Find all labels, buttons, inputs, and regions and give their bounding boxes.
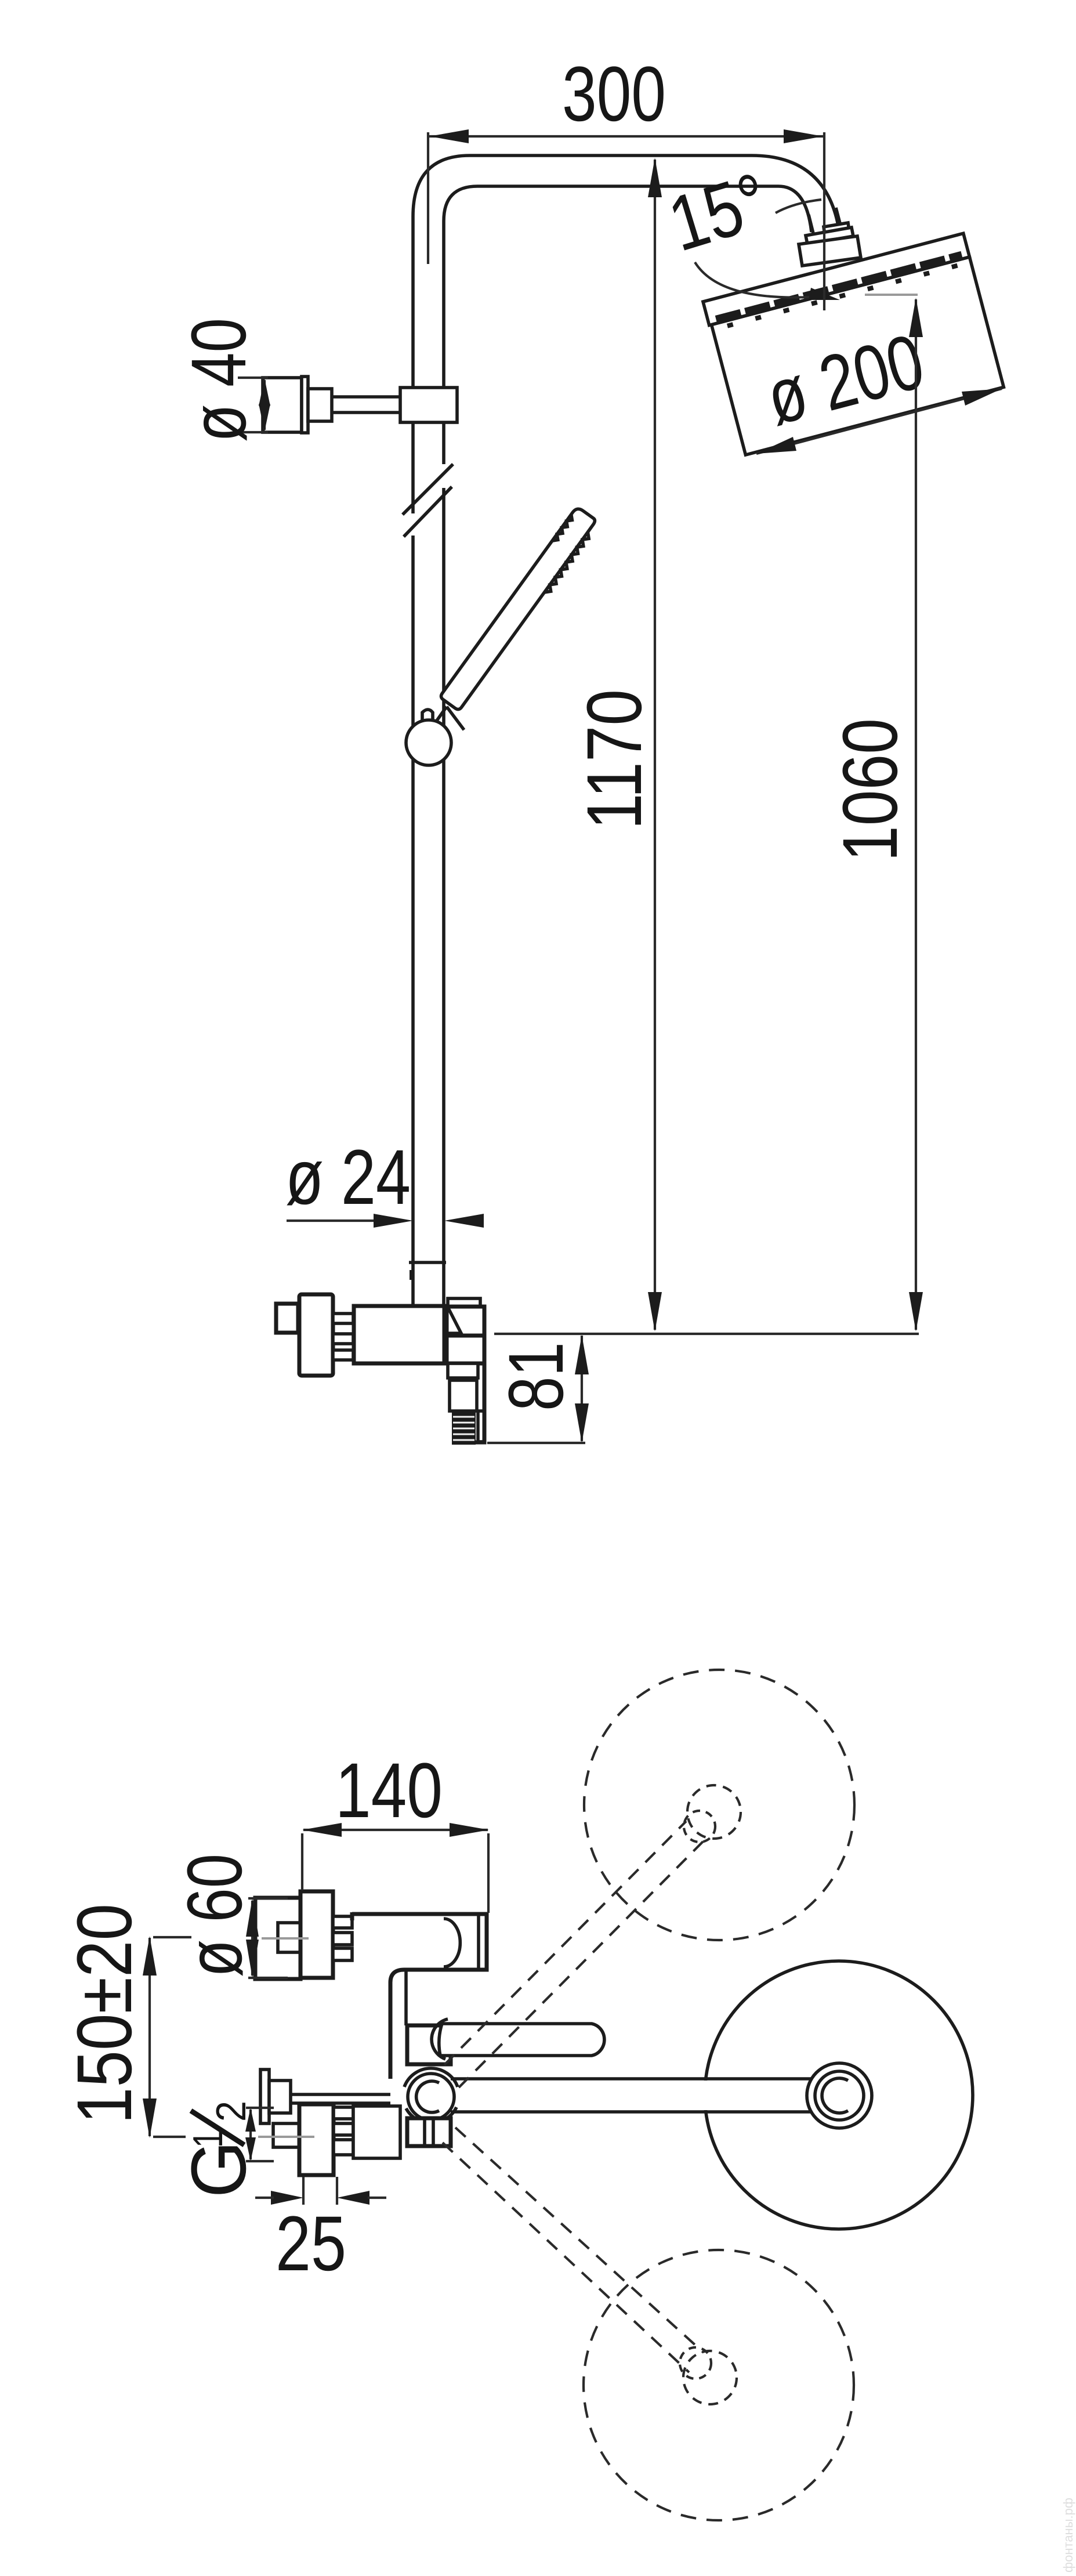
mixer valve right block lower: [447, 1336, 484, 1363]
dim G12 extensions: [246, 2108, 274, 2161]
dashed circle top (head position up): [584, 1670, 854, 1940]
wall flange hub mid: [815, 2071, 864, 2120]
joint inner C ring: [416, 2081, 439, 2112]
svg-text:15°: 15°: [660, 157, 778, 268]
shower riser pipe: right wall line: [442, 221, 445, 1306]
mixer valve rib 1: [333, 1314, 353, 1323]
mixer valve handle end square: [276, 1304, 298, 1333]
holder knob tab: [422, 710, 433, 722]
body bar socket arc: [444, 1919, 460, 1967]
head swivel collar large: [799, 236, 861, 266]
dim 25 extensions: [303, 2177, 337, 2205]
lever ball arc: [432, 2019, 448, 2059]
knob plan outer: [255, 1898, 300, 1979]
knob ribs: [333, 1916, 352, 1928]
label G12: [176, 2101, 262, 2198]
dashed swivel arm top: [444, 1821, 703, 2087]
G12 centerline: [174, 2136, 314, 2138]
hose outlet body: [450, 1380, 477, 1411]
svg-text:25: 25: [276, 2201, 346, 2287]
wall bracket arm lower line: [332, 411, 406, 414]
riser break mark upper: [403, 464, 453, 515]
dim o24 left line and arrow: [287, 1220, 376, 1222]
riser break mark lower: [404, 487, 452, 537]
svg-text:1170: 1170: [571, 689, 658, 830]
mixer valve rib 2: [333, 1334, 353, 1344]
mixer valve right edge: [476, 1307, 484, 1442]
dashed collar bottom: [683, 2351, 737, 2404]
body bar inner vertical: [477, 1914, 480, 1970]
holder ring on pipe: [406, 720, 451, 765]
angle leader arc to head face: [695, 262, 811, 298]
svg-text:1: 1: [185, 2130, 231, 2148]
lever handle plan: [439, 2024, 604, 2056]
wall bracket neck: [308, 389, 332, 421]
mixer valve rib 3: [333, 1350, 353, 1360]
G12 lower body: [299, 2104, 334, 2175]
dim 300 line: [429, 135, 823, 138]
knob plan snout: [278, 1923, 300, 1952]
svg-text:300: 300: [562, 51, 666, 138]
dim 1060 line: [915, 299, 917, 1330]
collar box above joint: [407, 2025, 451, 2064]
dim G12 arrows: [249, 2110, 252, 2159]
riser top bend outer line: [413, 155, 839, 229]
dim 81 bottom extension: [487, 1442, 585, 1444]
G12 inlet thin plate: [260, 2070, 269, 2123]
wall bracket back plate: [302, 377, 308, 433]
svg-text:150±20: 150±20: [61, 1904, 148, 2124]
dim 140 extensions: [302, 1833, 488, 1913]
shower riser pipe: left wall line: [411, 216, 415, 1306]
mixer valve main body: [354, 1306, 444, 1363]
dim 1170 line: [654, 160, 656, 1330]
dim 150+-20 line: [148, 1938, 151, 2136]
hose outlet collar: [448, 1363, 478, 1378]
wall flange hub outer: [807, 2063, 872, 2128]
head face plate: [703, 233, 969, 325]
angle leader arc right of label: [776, 200, 821, 213]
dim o60 extensions: [248, 1898, 288, 1978]
mixer plan body bar: [352, 1912, 487, 2079]
joint outer arcs: [404, 2068, 458, 2123]
riser collar above mixer: [409, 1261, 446, 1264]
mixer valve right block upper: [447, 1307, 484, 1336]
neck right edge: [404, 1970, 408, 2025]
head nozzle band: [716, 255, 962, 319]
wall bracket flange: [263, 378, 302, 432]
dim o40 double arrow: [263, 380, 266, 430]
knob plan hub: [300, 1891, 333, 1978]
knob centerline: [262, 1937, 309, 1940]
hose outlet knurled nut: [452, 1411, 476, 1445]
swivel joint circle: [408, 2074, 454, 2120]
dim 140 line: [303, 1829, 488, 1831]
head swivel collar small: [806, 227, 853, 244]
svg-text:ø 24: ø 24: [285, 1134, 411, 1221]
dim o60 arrows: [251, 1901, 253, 1976]
dim 300 left extension: [427, 132, 429, 264]
G12 inlet flange: [269, 2081, 291, 2113]
mixer valve diverter notch: [448, 1308, 461, 1333]
dim 300 right extension: [823, 132, 825, 310]
dim o24 right line and arrow: [468, 1220, 481, 1222]
G12 inlet arm: [291, 2094, 390, 2103]
mixer valve divider line: [444, 1306, 448, 1363]
dashed collar top: [687, 1785, 741, 1839]
wand grip ribs left edge: [552, 515, 574, 544]
svg-text:1060: 1060: [827, 718, 914, 862]
collar box below joint: [407, 2118, 451, 2146]
dim 1060 aux grey tick: [865, 294, 918, 296]
head drop pipe left edge: [809, 215, 814, 236]
dim 81 line: [581, 1336, 583, 1441]
big wall circle (shower head plan): [705, 1961, 973, 2229]
dashed swivel arm bottom: [443, 2128, 704, 2372]
dashed circle bottom (head position down): [584, 2250, 854, 2520]
svg-text:фонтаны.рф: фонтаны.рф: [1061, 2498, 1075, 2573]
svg-text:140: 140: [335, 1748, 443, 1834]
dim 25 arrows: [271, 2191, 303, 2205]
dim leader o40 bottom ext: [238, 431, 268, 433]
G12 lower square: [273, 2123, 299, 2147]
G12 right block: [353, 2106, 400, 2158]
head ball joint neck: [824, 223, 850, 243]
wall bracket arm upper line: [332, 395, 406, 399]
wall flange hub inner C: [822, 2078, 848, 2113]
head body: [712, 257, 1004, 455]
G12 lower ribs: [334, 2107, 353, 2119]
wall bracket slider block on pipe: [400, 388, 457, 422]
svg-text:ø 60: ø 60: [172, 1854, 258, 1977]
riser top bend inner line: [444, 186, 811, 232]
svg-text:G: G: [176, 2141, 262, 2198]
svg-text:ø 40: ø 40: [176, 318, 262, 442]
mixer valve handle disc: [299, 1294, 333, 1376]
shower head: [703, 233, 1003, 455]
head drop pipe right edge: [836, 208, 842, 230]
dim 81 top extension: [494, 1333, 919, 1335]
wand grip ribs right edge: [544, 532, 591, 595]
hand shower wand: [440, 506, 600, 714]
wall arm to flange: [451, 2081, 812, 2110]
wand lower cone into holder: [437, 707, 464, 730]
hose outlet side strip: [478, 1411, 484, 1442]
dim 150+-20 extensions: [153, 1937, 191, 2137]
svg-text:2: 2: [208, 2101, 255, 2122]
svg-text:81: 81: [493, 1342, 579, 1411]
head nozzle dots: [727, 264, 963, 326]
mixer valve top flange: [448, 1298, 480, 1307]
dim o200 line with arrows: [756, 389, 1002, 454]
dim leader o40 top ext: [238, 377, 268, 379]
